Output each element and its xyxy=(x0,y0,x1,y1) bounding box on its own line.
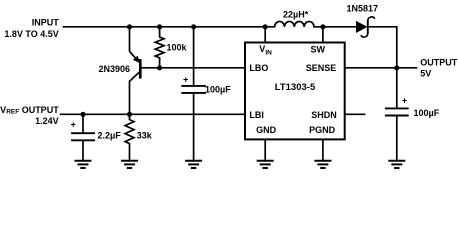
node output junction xyxy=(394,65,399,70)
svg-text:+: + xyxy=(183,74,188,84)
label 33k xyxy=(137,130,153,140)
label C3 100uF xyxy=(414,108,440,118)
svg-text:100k: 100k xyxy=(167,42,188,52)
ground 33k xyxy=(121,161,138,168)
node VIN junction xyxy=(263,24,268,29)
capacitor C1 100uF xyxy=(181,27,206,161)
svg-text:SENSE: SENSE xyxy=(306,63,337,73)
svg-text:OUTPUT: OUTPUT xyxy=(420,58,458,68)
label 2N3906 xyxy=(98,64,130,74)
svg-text:5V: 5V xyxy=(420,68,431,78)
wire SHDN stub xyxy=(345,113,366,115)
wire PGND pin xyxy=(322,139,324,160)
resistor 100k xyxy=(155,27,164,68)
wire VREF line xyxy=(60,113,245,115)
label INPUT xyxy=(4,18,59,39)
svg-text:1.24V: 1.24V xyxy=(35,116,59,126)
svg-text:1.8V TO 4.5V: 1.8V TO 4.5V xyxy=(4,29,58,39)
label C3 plus xyxy=(402,96,407,106)
node C2 top junction xyxy=(80,112,85,117)
node 100k top junction xyxy=(157,24,162,29)
svg-text:LBI: LBI xyxy=(249,110,264,120)
node 100k bottom junction xyxy=(157,65,162,70)
svg-text:100µF: 100µF xyxy=(414,108,440,118)
wire input rail xyxy=(63,26,266,28)
ground C1 xyxy=(185,161,202,168)
svg-text:+: + xyxy=(402,96,407,106)
label L1 22uH xyxy=(283,10,309,20)
capacitor C2 2.2uF xyxy=(71,114,95,160)
node 33k top junction xyxy=(127,112,132,117)
svg-text:1N5817: 1N5817 xyxy=(347,3,379,13)
svg-text:LT1303-5: LT1303-5 xyxy=(275,82,316,93)
label C2 2.2uF xyxy=(98,130,122,140)
svg-text:VIN: VIN xyxy=(259,44,272,56)
svg-text:100µF: 100µF xyxy=(205,84,231,94)
wire SW pin xyxy=(322,27,324,43)
svg-text:SW: SW xyxy=(311,44,326,54)
label C1 100uF xyxy=(205,84,231,94)
ground PGND xyxy=(314,161,331,168)
node SW junction xyxy=(320,24,325,29)
svg-text:SHDN: SHDN xyxy=(311,110,337,120)
label C2 plus xyxy=(71,120,76,130)
label D1 1N5817 xyxy=(347,3,379,13)
wire VIN pin xyxy=(264,27,266,43)
inductor L1 22uH xyxy=(265,21,323,26)
wire SW to diode xyxy=(323,26,356,28)
label U1 pins xyxy=(249,44,336,135)
svg-text:LBO: LBO xyxy=(249,63,268,73)
svg-text:+: + xyxy=(71,120,76,130)
ground GND xyxy=(257,161,274,168)
ground C2 xyxy=(75,161,92,168)
svg-text:2.2µF: 2.2µF xyxy=(98,130,122,140)
label VREF OUTPUT xyxy=(0,105,59,126)
node C1 top junction xyxy=(191,24,196,29)
node emitter junction xyxy=(127,24,132,29)
op-amp U1 LT1303-5 box xyxy=(245,43,345,140)
wire diode to output corner xyxy=(368,27,397,109)
label C1 plus xyxy=(183,74,188,84)
label 100k xyxy=(167,42,188,52)
svg-text:INPUT: INPUT xyxy=(32,18,60,28)
svg-text:33k: 33k xyxy=(137,130,153,140)
svg-text:VREF OUTPUT: VREF OUTPUT xyxy=(0,105,59,116)
label OUTPUT 5V xyxy=(420,58,458,79)
resistor 33k xyxy=(125,114,134,160)
svg-text:GND: GND xyxy=(256,125,277,135)
wire output stub xyxy=(397,67,418,69)
svg-text:PGND: PGND xyxy=(309,125,336,135)
ground C3 xyxy=(388,161,405,168)
wire GND pin xyxy=(264,139,266,160)
transistor Q1 2N3906 xyxy=(130,27,141,115)
diode D1 1N5817 xyxy=(356,17,375,37)
svg-text:2N3906: 2N3906 xyxy=(98,64,130,74)
capacitor C3 100uF xyxy=(385,108,409,160)
wire LBO line (base to IC) xyxy=(140,67,245,69)
wire SENSE line xyxy=(345,67,397,69)
svg-text:22µH*: 22µH* xyxy=(283,10,309,20)
